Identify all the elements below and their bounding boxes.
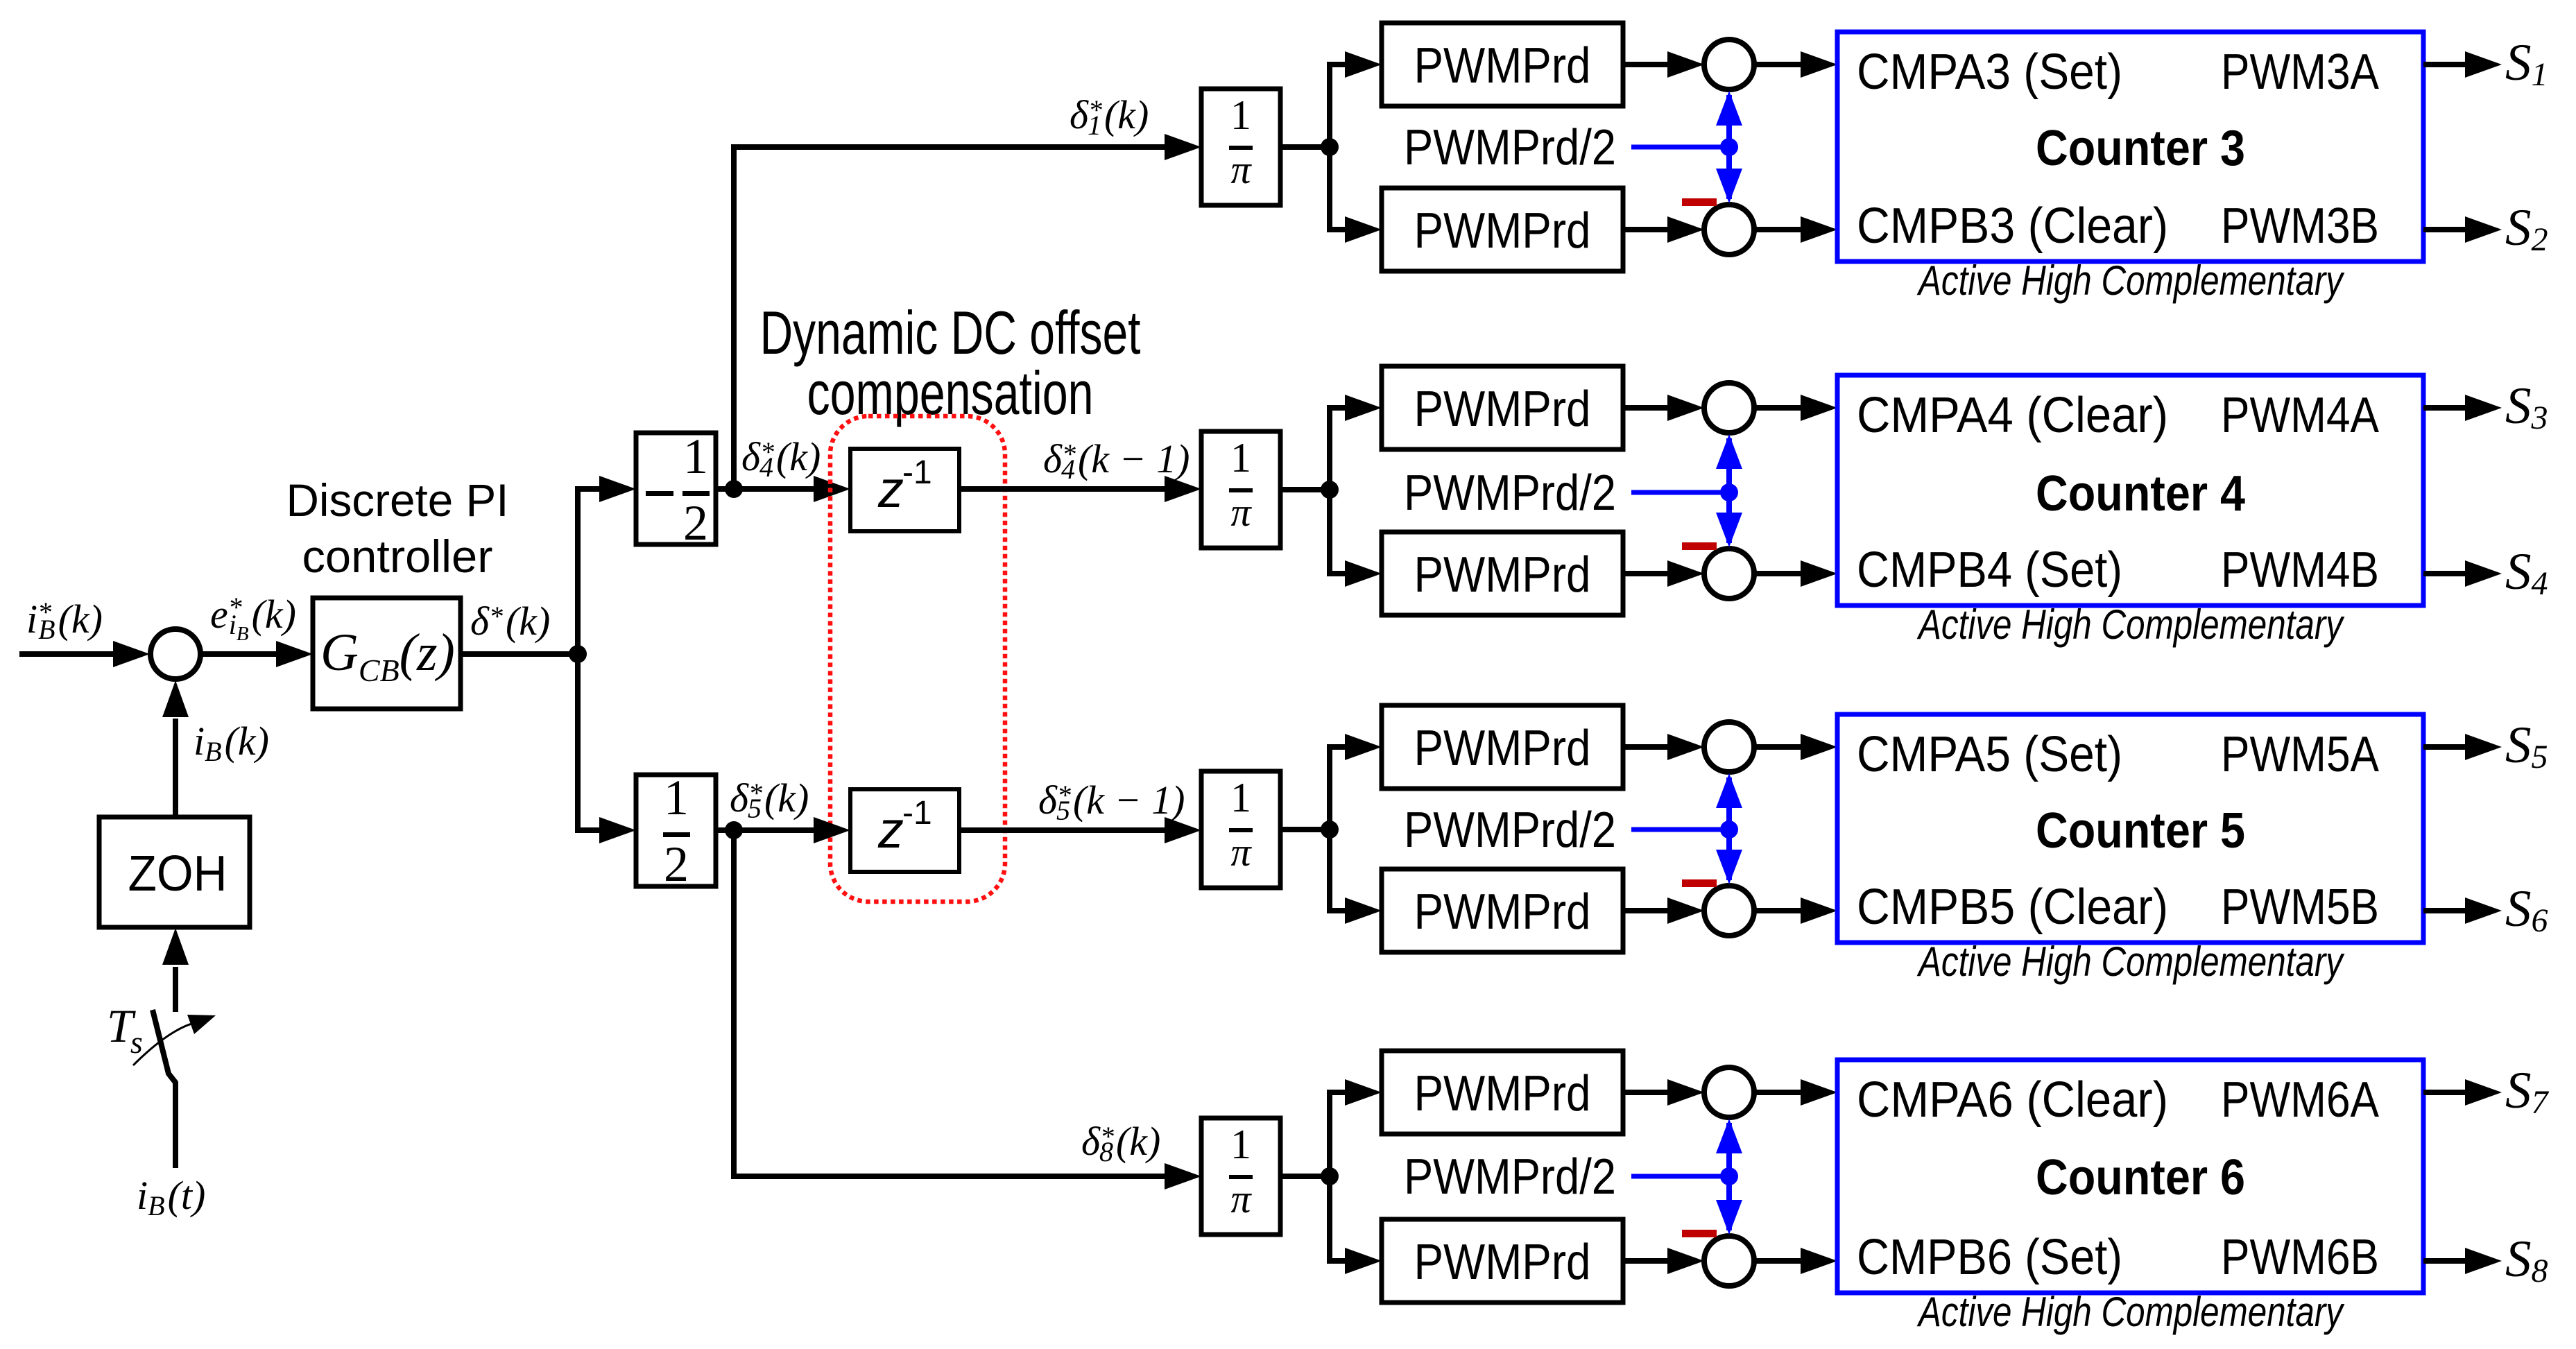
svg-text:compensation: compensation [807, 359, 1094, 427]
label Dynamic DC offset compensation [760, 298, 1141, 427]
svg-text:z: z [877, 801, 904, 859]
svg-text:PWM6A: PWM6A [2221, 1072, 2379, 1128]
svg-text:Active High Complementary: Active High Complementary [1917, 1289, 2346, 1335]
svg-text:1: 1 [1230, 775, 1251, 820]
label Discrete PI controller [286, 474, 509, 582]
wire sum to counter top row5 [1754, 734, 1837, 760]
minus sign row5 [1682, 879, 1717, 887]
svg-text:1: 1 [1230, 435, 1251, 481]
svg-text:PWMPrd: PWMPrd [1414, 547, 1591, 603]
svg-text:PWM6B: PWM6B [2221, 1230, 2379, 1285]
block Counter 3 [1837, 32, 2423, 261]
svg-text:PWMPrd: PWMPrd [1414, 884, 1591, 940]
node PWMPrd/2 blue row3 [1720, 138, 1738, 156]
summing junction top row4 [1704, 383, 1754, 433]
minus sign row6 [1682, 1230, 1717, 1237]
svg-text:Counter 6: Counter 6 [2036, 1150, 2245, 1205]
wire to 1/2 block [575, 817, 636, 843]
wire sum to counter bottom row6 [1754, 1248, 1837, 1274]
svg-text:1: 1 [1230, 1122, 1251, 1167]
wire output S4 [2423, 560, 2502, 587]
minus sign row4 [1682, 542, 1717, 550]
node main branch [569, 645, 587, 663]
summing junction bottom row5 [1704, 886, 1754, 936]
wire PWMPrd to sum bottom row6 [1623, 1248, 1704, 1274]
wire branch vertical row5 [1327, 744, 1332, 913]
blue offset arrows row6 [1716, 1119, 1742, 1235]
summing junction bottom row3 [1704, 205, 1754, 255]
wire branch vertical row4 [1327, 405, 1332, 576]
red dashed compensation box [830, 416, 1005, 902]
svg-text:S1: S1 [2505, 34, 2548, 93]
wire 1/2 out [716, 827, 734, 833]
wire PWMPrd to sum bottom row3 [1623, 216, 1704, 243]
wire to PWMPrd bottom row6 [1327, 1248, 1382, 1274]
svg-text:δ*4(k): δ*4(k) [741, 434, 821, 483]
node delta4 branch [725, 480, 743, 498]
wire 1/pi out row6 [1280, 1174, 1330, 1179]
wire 1/pi out row4 [1280, 487, 1330, 492]
svg-text:1: 1 [1230, 92, 1251, 138]
wire z-1 to 1/pi row3 [959, 817, 1201, 843]
svg-text:S4: S4 [2505, 543, 2548, 602]
wire ZOH to sum [162, 680, 189, 817]
wire sum to counter top row3 [1754, 51, 1837, 78]
svg-text:PWMPrd: PWMPrd [1414, 203, 1591, 259]
wire branch vertical row6 [1327, 1090, 1332, 1264]
summing junction bottom row4 [1704, 549, 1754, 599]
svg-text:PWMPrd: PWMPrd [1414, 1066, 1591, 1122]
block PWMPrd top row6 [1382, 1051, 1623, 1134]
svg-text:i*B(k): i*B(k) [26, 596, 103, 645]
blue offset arrows row3 [1716, 91, 1742, 203]
svg-text:2: 2 [683, 495, 708, 551]
node 1/pi branch row3 [1321, 138, 1339, 156]
svg-text:Counter 3: Counter 3 [2036, 121, 2245, 176]
blue offset arrows row4 [1716, 434, 1742, 547]
svg-text:Discrete PI: Discrete PI [286, 474, 509, 526]
svg-text:PWM3A: PWM3A [2221, 44, 2379, 100]
svg-text:z: z [877, 461, 904, 518]
block PWMPrd bottom row3 [1382, 188, 1623, 271]
wire output S6 [2423, 897, 2502, 924]
wire delta8 horizontal [731, 1163, 1201, 1189]
svg-text:CMPB3 (Clear): CMPB3 (Clear) [1857, 198, 2168, 254]
block G_CB(z) [313, 598, 461, 709]
svg-text:CMPA6 (Clear): CMPA6 (Clear) [1857, 1072, 2168, 1128]
svg-text:S8: S8 [2505, 1230, 2548, 1289]
wire iB(t) input [173, 1082, 178, 1168]
svg-text:PWM5A: PWM5A [2221, 727, 2379, 782]
block PWMPrd top row3 [1382, 23, 1623, 106]
svg-text:PWMPrd/2: PWMPrd/2 [1404, 802, 1616, 858]
svg-text:Active High Complementary: Active High Complementary [1917, 601, 2346, 648]
wire PWMPrd/2 blue row6 [1631, 1174, 1729, 1179]
sampler switch blade [153, 1010, 176, 1083]
wire to PWMPrd top row6 [1327, 1079, 1382, 1106]
wire PWMPrd to sum top row5 [1623, 734, 1704, 760]
node 1/pi branch row6 [1321, 1167, 1339, 1185]
wire PWMPrd to sum top row6 [1623, 1079, 1704, 1106]
svg-text:PWM4A: PWM4A [2221, 388, 2379, 443]
svg-text:PWMPrd/2: PWMPrd/2 [1404, 1149, 1616, 1205]
wire branch vertical row3 [1327, 62, 1332, 232]
svg-text:δ*8(k): δ*8(k) [1081, 1119, 1160, 1167]
block gain 1/2 [636, 770, 716, 892]
svg-text:δ*1(k): δ*1(k) [1070, 92, 1149, 141]
svg-text:δ*5(k − 1): δ*5(k − 1) [1038, 777, 1185, 826]
block PWMPrd bottom row6 [1382, 1219, 1623, 1303]
node 1/pi branch row4 [1321, 481, 1339, 499]
wire output S7 [2423, 1079, 2502, 1106]
svg-text:δ*(k): δ*(k) [470, 599, 550, 644]
wire 1/pi out row3 [1280, 144, 1330, 150]
wire delta8 vertical [731, 830, 737, 1179]
svg-text:δ*4(k − 1): δ*4(k − 1) [1043, 436, 1190, 485]
svg-text:S2: S2 [2505, 199, 2548, 258]
svg-text:S6: S6 [2505, 880, 2548, 939]
wire to -1/2 block [575, 476, 636, 502]
summing junction top row3 [1704, 40, 1754, 89]
wire PWMPrd/2 blue row3 [1631, 145, 1729, 150]
svg-text:PWM5B: PWM5B [2221, 879, 2379, 935]
wire sum to counter top row6 [1754, 1079, 1837, 1106]
wire to PWMPrd top row4 [1327, 395, 1382, 421]
minus sign row3 [1682, 198, 1717, 206]
svg-text:PWMPrd: PWMPrd [1414, 38, 1591, 94]
wire PWMPrd/2 blue row4 [1631, 490, 1729, 495]
svg-text:CMPB4 (Set): CMPB4 (Set) [1857, 542, 2122, 598]
wire output S3 [2423, 395, 2502, 421]
svg-text:Counter 5: Counter 5 [2036, 803, 2245, 859]
svg-text:-1: -1 [902, 795, 932, 832]
svg-text:iB(t): iB(t) [137, 1173, 205, 1221]
node PWMPrd/2 blue row4 [1720, 483, 1738, 501]
wire output S1 [2423, 51, 2502, 78]
wire PWMPrd/2 blue row5 [1631, 827, 1729, 832]
wire z-1 to 1/pi row2 [959, 476, 1201, 502]
block PWMPrd bottom row5 [1382, 869, 1623, 952]
svg-text:S7: S7 [2505, 1062, 2550, 1121]
block 1/pi row5 [1201, 771, 1280, 888]
block 1/pi row6 [1201, 1118, 1280, 1235]
sampler annotation arrow [133, 1015, 216, 1065]
svg-text:Active High Complementary: Active High Complementary [1917, 938, 2346, 985]
block 1/pi row3 [1201, 89, 1280, 205]
wire output S5 [2423, 734, 2502, 760]
wire PWMPrd to sum top row3 [1623, 51, 1704, 78]
svg-text:Active High Complementary: Active High Complementary [1917, 257, 2346, 304]
summing junction 1 [151, 629, 200, 679]
svg-text:CMPB6 (Set): CMPB6 (Set) [1857, 1230, 2122, 1285]
node delta5 branch [725, 821, 743, 839]
svg-text:PWMPrd: PWMPrd [1414, 381, 1591, 437]
svg-text:-1: -1 [902, 454, 932, 491]
wire to PWMPrd bottom row5 [1327, 897, 1382, 924]
svg-text:π: π [1230, 830, 1252, 875]
block z^-1 upper [850, 449, 959, 531]
wire sampler to ZOH [162, 928, 189, 1012]
wire to PWMPrd top row3 [1327, 51, 1382, 78]
svg-text:π: π [1230, 147, 1252, 192]
svg-text:PWM4B: PWM4B [2221, 542, 2379, 598]
block ZOH [99, 817, 250, 927]
svg-text:PWMPrd: PWMPrd [1414, 721, 1591, 776]
block PWMPrd top row4 [1382, 366, 1623, 449]
wire delta5 to z-1 [734, 817, 850, 843]
block PWMPrd top row5 [1382, 705, 1623, 789]
wire PWMPrd to sum bottom row5 [1623, 897, 1704, 924]
block PWMPrd bottom row4 [1382, 532, 1623, 615]
wire delta4 to z-1 [734, 476, 850, 502]
block Counter 5 [1837, 714, 2423, 943]
wire sum to counter top row4 [1754, 395, 1837, 421]
summing junction top row6 [1704, 1067, 1754, 1117]
svg-text:1: 1 [664, 770, 689, 825]
wire output S2 [2423, 216, 2502, 243]
summing junction top row5 [1704, 722, 1754, 772]
block 1/pi row4 [1201, 431, 1280, 548]
wire to PWMPrd top row5 [1327, 734, 1382, 760]
svg-text:S5: S5 [2505, 716, 2548, 775]
svg-text:CMPA3 (Set): CMPA3 (Set) [1857, 44, 2122, 100]
svg-text:Ts: Ts [107, 999, 143, 1060]
svg-text:π: π [1230, 1176, 1252, 1221]
wire output S8 [2423, 1248, 2502, 1274]
node PWMPrd/2 blue row5 [1720, 820, 1738, 839]
wire input i*B(k) [19, 641, 150, 667]
wire to PWMPrd bottom row4 [1327, 560, 1382, 587]
blue offset arrows row5 [1716, 773, 1742, 884]
svg-text:PWMPrd: PWMPrd [1414, 1235, 1591, 1290]
wire PWMPrd to sum bottom row4 [1623, 560, 1704, 587]
wire to PWMPrd bottom row3 [1327, 216, 1382, 243]
node PWMPrd/2 blue row6 [1720, 1167, 1738, 1185]
svg-text:2: 2 [664, 836, 689, 892]
svg-text:controller: controller [302, 531, 493, 582]
wire sum to counter bottom row4 [1754, 560, 1837, 587]
node 1/pi branch row5 [1321, 820, 1339, 839]
svg-text:1: 1 [683, 429, 708, 484]
wire delta1 vertical [731, 144, 737, 489]
svg-text:ZOH: ZOH [128, 846, 227, 902]
svg-text:CMPB5 (Clear): CMPB5 (Clear) [1857, 879, 2168, 935]
wire 1/pi out row5 [1280, 827, 1330, 832]
svg-text:PWM3B: PWM3B [2221, 198, 2379, 254]
block z^-1 lower [850, 789, 959, 872]
wire sum to G block [201, 641, 313, 667]
summing junction bottom row6 [1704, 1236, 1754, 1286]
svg-text:Dynamic DC offset: Dynamic DC offset [760, 298, 1141, 367]
svg-text:CMPA4 (Clear): CMPA4 (Clear) [1857, 388, 2168, 443]
wire main vertical [575, 486, 581, 833]
wire delta1 horizontal [731, 134, 1201, 160]
block gain -1/2 [636, 429, 716, 551]
block Counter 4 [1837, 375, 2423, 605]
block Counter 6 [1837, 1060, 2423, 1293]
svg-text:δ*5(k): δ*5(k) [730, 775, 809, 824]
svg-text:Counter 4: Counter 4 [2036, 466, 2245, 522]
wire sum to counter bottom row5 [1754, 897, 1837, 924]
svg-text:CMPA5 (Set): CMPA5 (Set) [1857, 727, 2122, 782]
wire G to branch [461, 651, 578, 657]
svg-text:PWMPrd/2: PWMPrd/2 [1404, 120, 1616, 175]
svg-text:PWMPrd/2: PWMPrd/2 [1404, 465, 1616, 521]
svg-text:π: π [1230, 490, 1252, 535]
svg-text:iB(k): iB(k) [194, 719, 269, 767]
wire -1/2 out [716, 486, 734, 492]
wire PWMPrd to sum top row4 [1623, 395, 1704, 421]
svg-text:S3: S3 [2505, 377, 2548, 436]
wire sum to counter bottom row3 [1754, 216, 1837, 243]
svg-text:e*iB(k): e*iB(k) [210, 592, 296, 645]
